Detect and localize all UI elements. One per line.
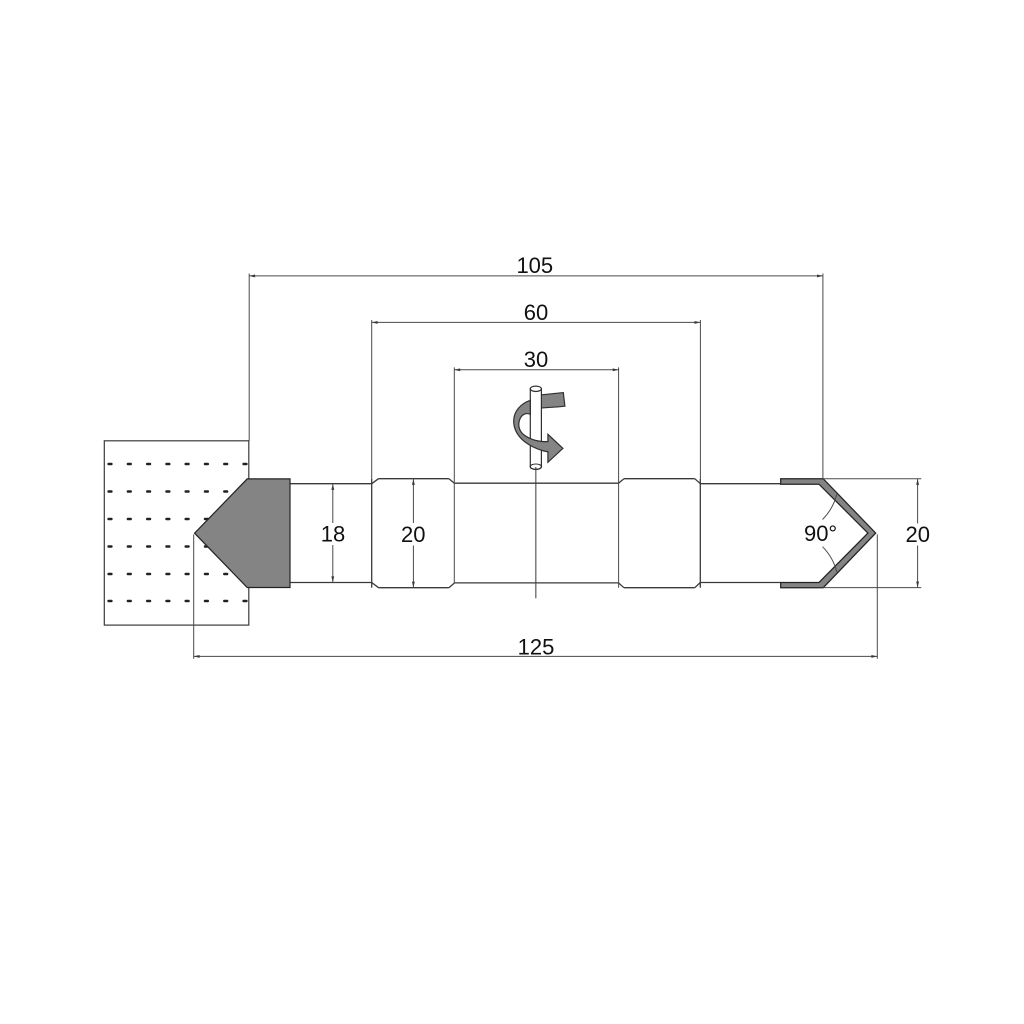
workpiece block outline: [104, 441, 249, 625]
svg-text:18: 18: [321, 522, 345, 547]
dim 125 arrow right: [871, 655, 877, 658]
dim 125 ext right: [876, 535, 878, 659]
svg-text:20: 20: [905, 522, 929, 547]
workpiece dot pattern: [107, 463, 247, 602]
tool body profile: [290, 479, 781, 588]
dim 20 arrow bottom: [412, 582, 415, 588]
svg-text:105: 105: [516, 253, 553, 278]
left land bottom edge: [379, 587, 449, 589]
left land bottom chamfer right: [449, 583, 455, 588]
dimension lines: [194, 274, 922, 659]
neck 18 left bottom edge: [290, 582, 372, 584]
angle arc lower: [823, 547, 837, 572]
left land top chamfer left: [372, 479, 379, 484]
neck 18 left top edge: [290, 483, 372, 485]
angle arc upper: [823, 494, 837, 519]
dim 105 ext right: [822, 274, 824, 479]
rotation symbol: rod top ellipse: [530, 386, 541, 391]
dim 60 line: [372, 321, 701, 323]
rotation symbol: rod bottom ellipse: [530, 464, 541, 469]
left land top chamfer right: [449, 479, 455, 484]
rotation symbol: back band: [531, 393, 565, 409]
svg-text:90°: 90°: [804, 521, 837, 546]
svg-text:30: 30: [524, 347, 548, 372]
dim 20 right line upper: [917, 479, 919, 524]
svg-text:125: 125: [518, 634, 555, 659]
dimension texts: [321, 253, 930, 659]
dim 60 arrow left: [372, 321, 378, 324]
dimension arrowheads: [194, 274, 919, 657]
neck 18 right top edge: [700, 483, 780, 485]
dim 30 ext left: [453, 367, 455, 583]
dim 20 right arrow top: [916, 479, 919, 485]
dim 20 right ext bottom: [823, 587, 921, 589]
left land top edge: [379, 478, 449, 480]
dim 20 mid line upper: [412, 479, 414, 523]
dim 18 arrow top: [331, 484, 334, 490]
axis line below rod: [535, 467, 537, 598]
dim 20 right arrow bottom: [916, 582, 919, 588]
svg-text:60: 60: [524, 300, 548, 325]
dim 20 right ext top: [823, 478, 921, 480]
right land bottom chamfer right: [695, 583, 701, 588]
dim 105 arrow right: [817, 274, 823, 277]
dim 30 arrow right: [613, 368, 619, 371]
dim 20 arrow top: [412, 479, 415, 485]
dim 30 ext right: [618, 367, 620, 587]
right land right face: [699, 479, 701, 588]
dim 125 ext left: [193, 535, 195, 659]
right land bottom edge: [624, 587, 695, 589]
carbide tip (gray pentagon): [195, 479, 290, 588]
dim 105 line: [249, 275, 823, 277]
left land bottom chamfer left: [372, 583, 379, 588]
left land left face: [371, 479, 373, 588]
dim 18 line lower: [332, 545, 334, 582]
dim 60 ext left: [371, 320, 373, 479]
dim 105 arrow left: [249, 274, 255, 277]
dim 30 line: [454, 369, 618, 371]
dim 60 ext right: [699, 320, 701, 479]
rotation symbol: front swirl with arrowhead: [514, 400, 563, 462]
dim 105 ext left: [248, 274, 250, 442]
dim 30 arrow left: [454, 368, 460, 371]
dim 20 right line lower: [917, 546, 919, 588]
svg-text:20: 20: [401, 522, 425, 547]
dim 60 arrow right: [695, 321, 701, 324]
dim 125 arrow left: [194, 655, 200, 658]
V cutter band 90 deg: [781, 479, 876, 588]
right land bottom chamfer left: [619, 583, 624, 588]
dim 18 arrow bottom: [331, 576, 334, 582]
right land top chamfer right: [695, 479, 701, 484]
dim 20 mid line lower: [412, 546, 414, 588]
right land top chamfer left: [619, 479, 624, 484]
rotation symbol: rod body: [530, 389, 541, 470]
right land top edge: [624, 478, 695, 480]
neck 18 right bottom edge: [700, 582, 780, 584]
relief section top edge: [454, 482, 618, 484]
dim 18 line upper: [332, 484, 334, 523]
relief section bottom edge: [454, 582, 618, 584]
dim 125 line: [194, 655, 878, 657]
